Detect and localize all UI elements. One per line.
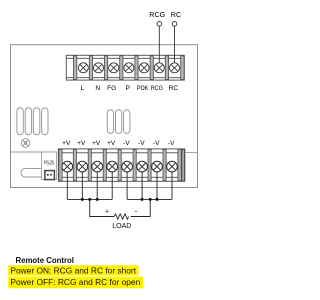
terminal -V3 bbox=[152, 161, 163, 172]
LOAD label bbox=[112, 223, 131, 230]
pot module label bbox=[44, 161, 55, 167]
TB2 output labels bbox=[62, 140, 175, 147]
highlight band ON bbox=[8, 265, 138, 275]
wire + feed down to load bbox=[90, 199, 114, 216]
terminal P bbox=[124, 63, 134, 73]
wire -V2 down bbox=[141, 172, 143, 200]
terminal L bbox=[78, 63, 88, 73]
pot connector (2-pin) bbox=[45, 171, 55, 180]
terminal N bbox=[94, 63, 104, 73]
wire - bus bbox=[127, 198, 172, 200]
Power ON note bbox=[10, 265, 136, 275]
wire -V3 down bbox=[156, 172, 158, 200]
svg-text:-V: -V bbox=[168, 140, 175, 147]
terminal RCG bbox=[154, 63, 164, 73]
polarity + label bbox=[105, 209, 109, 216]
terminal -V4 bbox=[167, 161, 178, 172]
svg-text:Remote Control: Remote Control bbox=[16, 256, 74, 265]
terminal block TB2 outer bbox=[58, 149, 184, 181]
svg-text:RCG: RCG bbox=[151, 85, 163, 92]
svg-text:+V: +V bbox=[62, 140, 71, 147]
svg-text:+: + bbox=[105, 209, 109, 216]
svg-text:+V: +V bbox=[107, 140, 116, 147]
wire +V2 down bbox=[81, 172, 83, 200]
potentiometer access slot bbox=[21, 169, 48, 178]
wire RCG to terminal bbox=[158, 26, 160, 63]
junction dots + bus bbox=[81, 198, 99, 201]
TB2 separator bars bbox=[59, 149, 184, 180]
highlight band OFF bbox=[8, 277, 143, 289]
svg-text:+V: +V bbox=[92, 140, 101, 147]
wire - feed down to load bbox=[131, 199, 151, 216]
wire +V1 down bbox=[66, 172, 68, 200]
wire RC to terminal bbox=[174, 26, 176, 63]
PSU case outline bbox=[11, 45, 198, 188]
svg-text:Power OFF: RCG and RC for open: Power OFF: RCG and RC for open bbox=[10, 277, 140, 287]
svg-text:Power ON: RCG and RC for short: Power ON: RCG and RC for short bbox=[10, 265, 136, 275]
terminal FG bbox=[109, 63, 119, 73]
svg-text:N: N bbox=[95, 85, 100, 92]
svg-text:-: - bbox=[135, 207, 138, 216]
svg-text:LOAD: LOAD bbox=[112, 223, 131, 230]
wire +V3 down bbox=[96, 172, 98, 200]
TB1 separator bars bbox=[73, 56, 184, 80]
front panel seam line (left segment) bbox=[11, 151, 57, 153]
Power OFF note bbox=[10, 277, 140, 287]
terminal +V3 bbox=[92, 161, 103, 172]
vent slot group middle (3 slots) bbox=[107, 110, 130, 134]
svg-text:RC: RC bbox=[169, 85, 179, 92]
vent slot group left (4 slots) bbox=[17, 108, 48, 135]
terminal +V2 bbox=[77, 161, 88, 172]
svg-text:RC: RC bbox=[171, 10, 181, 19]
terminal -V2 bbox=[137, 161, 148, 172]
svg-text:RCG: RCG bbox=[149, 10, 165, 19]
svg-text:+V: +V bbox=[77, 140, 86, 147]
wire -V4 down bbox=[171, 172, 173, 200]
TB1 labels bbox=[81, 85, 179, 92]
load resistor bbox=[114, 214, 128, 219]
Remote Control heading bbox=[16, 256, 74, 265]
svg-text:-V: -V bbox=[123, 140, 130, 147]
wire -V1 down bbox=[126, 172, 128, 200]
front panel seam line (right segment) bbox=[185, 152, 198, 154]
wire +V4 down bbox=[111, 172, 113, 200]
svg-text:FG: FG bbox=[107, 85, 116, 92]
terminal +V1 bbox=[62, 161, 73, 172]
remote control node labels bbox=[149, 10, 181, 19]
svg-text:PS-25: PS-25 bbox=[44, 161, 55, 167]
terminal block TB1 outer bbox=[66, 55, 184, 80]
polarity - label bbox=[135, 207, 138, 216]
svg-text:POK: POK bbox=[137, 85, 149, 92]
node RCG circle bbox=[157, 22, 162, 27]
chassis screw bbox=[21, 139, 30, 148]
junction dots - bus bbox=[141, 198, 159, 201]
terminal +V4 bbox=[107, 161, 118, 172]
wire + bus bbox=[67, 198, 112, 200]
terminal POK bbox=[139, 63, 149, 73]
node RC circle bbox=[172, 22, 177, 27]
svg-text:L: L bbox=[81, 85, 85, 92]
terminal RC bbox=[170, 63, 180, 73]
terminal -V1 bbox=[122, 161, 133, 172]
pot module box bbox=[42, 152, 57, 180]
svg-text:P: P bbox=[125, 85, 130, 92]
svg-text:-V: -V bbox=[138, 140, 145, 147]
svg-text:-V: -V bbox=[153, 140, 160, 147]
